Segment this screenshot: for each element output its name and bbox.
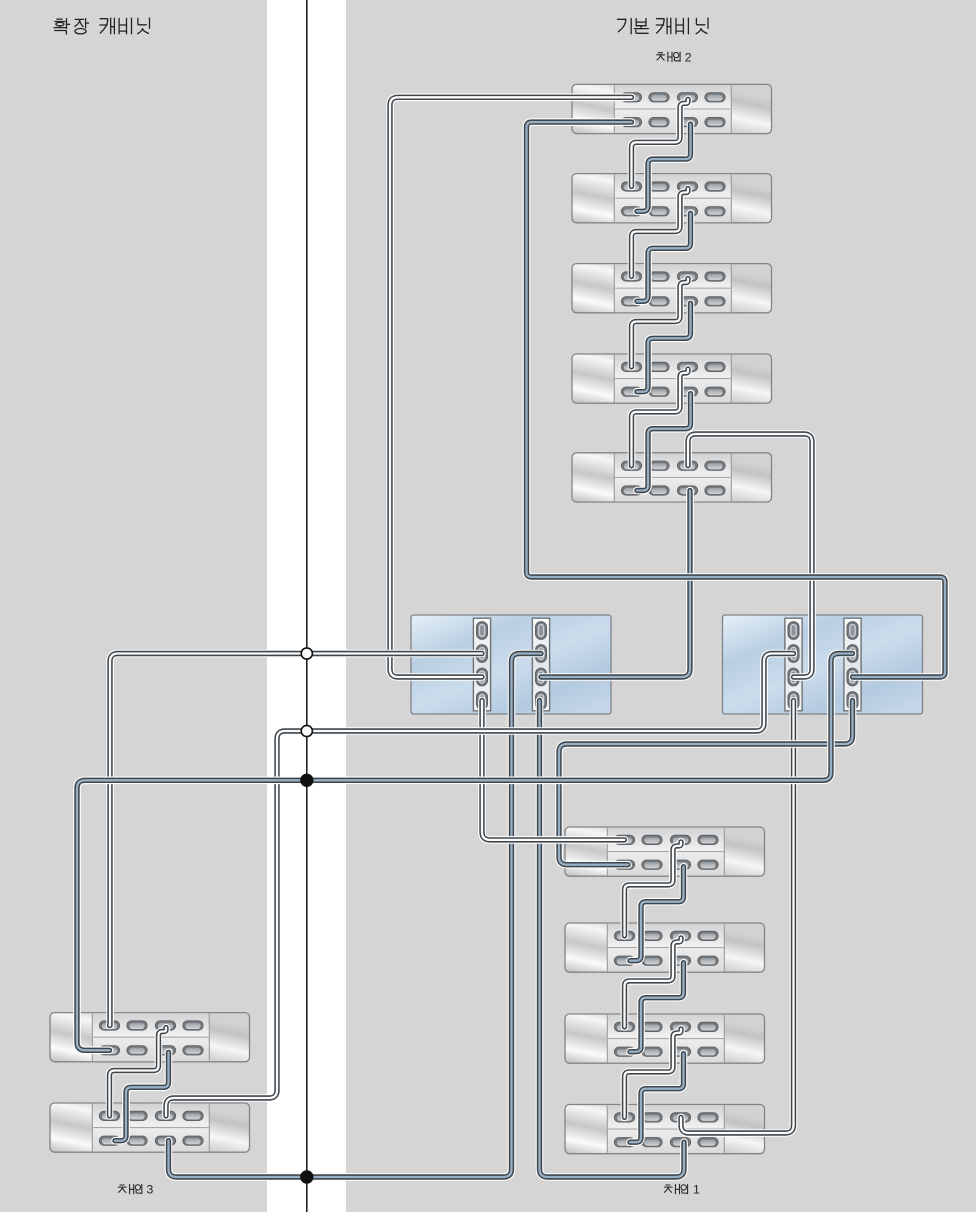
junction dot at divider, LC-to-chain3 bottom cable bbox=[300, 1170, 313, 1183]
chain1 disk shelf 2 bbox=[565, 923, 765, 972]
cable: left controller HBA2 port1 to chain2 shelf5 IOM-B port2 bbox=[541, 491, 690, 678]
svg-text:2: 2 bbox=[685, 50, 692, 64]
cable: chain3 shelf1 IOM-A port0 to left controller HBA1 port0 bbox=[110, 654, 483, 1026]
crossover marker (open) at divider, RC-to-chain3 cable bbox=[301, 725, 312, 736]
chain2 disk shelf 2 bbox=[572, 174, 772, 223]
cable: chain1 shelf2 IOM-B port2 to shelf3 IOM-B port0 bbox=[630, 963, 684, 1052]
chain1 disk shelf 4 bbox=[565, 1105, 765, 1154]
svg-text:1: 1 bbox=[693, 1183, 700, 1197]
chain2 disk shelf 4 bbox=[572, 354, 772, 403]
cable: chain2 shelf1 IOM-A port2 to shelf2 IOM-A port0 bbox=[632, 99, 689, 186]
chain2 disk shelf 1 bbox=[572, 84, 772, 133]
label: chain 3 (체인 3) bbox=[118, 1183, 153, 1197]
cable: chain2 shelf3 IOM-A port2 to shelf4 IOM-A port0 bbox=[632, 279, 689, 367]
chain2 disk shelf 3 bbox=[572, 264, 772, 313]
cable: right controller HBA1 port0 to chain3 shelf2 IOM-A port2 bbox=[166, 654, 794, 1116]
cable: chain2 shelf1 IOM-A port0 to left controller HBA1 port1 bbox=[390, 97, 632, 677]
cable: left controller HBA2 port2 to chain1 shelf4 IOM-B port2 bbox=[540, 701, 685, 1178]
expansion cabinet panel bbox=[0, 0, 267, 1212]
cable: chain1 shelf3 IOM-A port2 to shelf4 IOM-A port0 bbox=[625, 1029, 682, 1118]
left controller bbox=[411, 615, 611, 714]
cable: chain2 shelf4 IOM-B port2 to shelf5 IOM-B port0 bbox=[637, 394, 691, 491]
cabinet divider line bbox=[306, 0, 308, 1212]
cable: chain1 shelf1 IOM-B port2 to shelf2 IOM-B port0 bbox=[630, 867, 684, 961]
chain1 disk shelf 3 bbox=[565, 1014, 765, 1063]
chain3 disk shelf 2 bbox=[50, 1103, 250, 1152]
crossover marker (open) at divider, chain3-to-LC cable bbox=[301, 648, 312, 659]
primary cabinet panel bbox=[346, 0, 976, 1212]
label: expansion cabinet title (확장 캐비닛) bbox=[54, 18, 149, 34]
junction dot at divider, RC-to-chain3 blue cable bbox=[300, 774, 313, 787]
label: chain 1 (체인 1) bbox=[664, 1183, 700, 1197]
cable: right controller HBA1 port2 to chain1 shelf4 IOM-A port2 bbox=[681, 701, 794, 1134]
cable: chain2 shelf2 IOM-B port2 to shelf3 IOM-B port0 bbox=[637, 213, 691, 301]
cable: chain2 shelf1 IOM-B port2 to shelf2 IOM-B port0 bbox=[637, 124, 691, 211]
chain3 disk shelf 1 bbox=[50, 1013, 250, 1062]
cable: right controller HBA2 port0 to chain3 shelf1 IOM-B port0 bbox=[77, 654, 853, 1051]
cable: left controller HBA2 port0 to chain3 shelf2 IOM-B port2 bbox=[169, 654, 542, 1178]
right controller bbox=[723, 615, 923, 714]
cable: chain2 shelf4 IOM-A port2 to shelf5 IOM-A port0 bbox=[632, 369, 689, 466]
chain2 disk shelf 5 bbox=[572, 453, 772, 502]
cable: chain3 shelf1 IOM-A port2 to shelf2 IOM-A port0 bbox=[110, 1028, 167, 1116]
cable: chain2 shelf1 IOM-B port0 to right controller HBA2 port1 bbox=[527, 122, 946, 677]
cable: left controller HBA1 port2 to chain1 shelf1 IOM-A port0 bbox=[482, 701, 625, 840]
chain1 disk shelf 1 bbox=[565, 827, 765, 876]
cable: chain2 shelf2 IOM-A port2 to shelf3 IOM-A port0 bbox=[632, 189, 689, 277]
cable: chain1 shelf2 IOM-A port2 to shelf3 IOM-A port0 bbox=[625, 938, 682, 1027]
cable: chain2 shelf3 IOM-B port2 to shelf4 IOM-B port0 bbox=[637, 303, 691, 391]
cable: chain1 shelf1 IOM-A port2 to shelf2 IOM-A port0 bbox=[625, 842, 682, 936]
cable: right controller HBA1 port1 to chain2 shelf5 IOM-A port2 bbox=[688, 434, 812, 677]
cable: right controller HBA2 port2 to chain1 shelf1 IOM-B port0 bbox=[559, 701, 853, 865]
cable: chain3 shelf1 IOM-B port2 to shelf2 IOM-B port0 bbox=[115, 1052, 169, 1140]
svg-text:3: 3 bbox=[147, 1183, 154, 1197]
cable: chain1 shelf3 IOM-B port2 to shelf4 IOM-B port0 bbox=[630, 1054, 684, 1143]
label: primary cabinet title (기본 캐비닛) bbox=[618, 18, 709, 34]
label: chain 2 (체인 2) bbox=[657, 50, 692, 64]
